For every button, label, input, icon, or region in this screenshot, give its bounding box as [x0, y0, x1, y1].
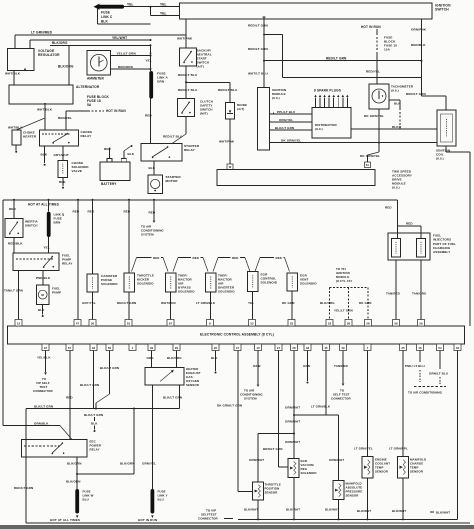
- wire RED/YEL tach feed: [376, 54, 378, 84]
- wire ORN/WHT pin 28 main: [293, 351, 295, 459]
- svg-text:BLK/ORN: BLK/ORN: [67, 462, 82, 466]
- svg-text:BLK/WHT: BLK/WHT: [392, 509, 406, 513]
- svg-text:53: 53: [127, 321, 131, 325]
- wire BLK/ORN riser: [133, 409, 135, 475]
- svg-text:(8 CYL CFI: (8 CYL CFI: [336, 279, 352, 283]
- svg-text:RED/LT BLU: RED/LT BLU: [178, 88, 198, 92]
- svg-text:BLK/WHT: BLK/WHT: [286, 508, 300, 512]
- wire BLK/ORG horizontal: [50, 44, 151, 46]
- wire RED battery positive: [109, 148, 111, 159]
- svg-text:DK GRN: DK GRN: [359, 301, 372, 305]
- fuse link Y: [151, 489, 155, 514]
- svg-text:67: 67: [169, 321, 173, 325]
- ground choke solenoid: [62, 177, 64, 186]
- wire YEL/BLK to VIP self test: [45, 351, 47, 373]
- wire BLK/LT GRN horizontal: [26, 408, 180, 410]
- wire TAN/ORG: [420, 260, 422, 320]
- svg-text:RED/LT BLU: RED/LT BLU: [163, 134, 183, 138]
- wire ORN/PNK ignition switch down: [421, 19, 423, 96]
- svg-text:LT GRN/BLK: LT GRN/BLK: [196, 301, 216, 305]
- svg-text:15A: 15A: [384, 48, 391, 52]
- svg-text:BLK/WHT: BLK/WHT: [244, 508, 258, 512]
- wire branch to MAP: [294, 414, 339, 416]
- fuse link C: [99, 5, 124, 9]
- svg-text:28: 28: [292, 346, 296, 350]
- svg-text:WHT/LT BLU: WHT/LT BLU: [248, 71, 269, 75]
- svg-text:ALTERNATOR: ALTERNATOR: [76, 85, 100, 89]
- svg-text:TAN/RED: TAN/RED: [386, 291, 401, 295]
- wire LT GRN/BLK: [210, 292, 212, 320]
- wire BLK/LT GRN pin 46: [93, 351, 95, 409]
- wire BLK pin 20 ground: [215, 351, 217, 372]
- wire BLK battery ground: [123, 151, 125, 158]
- wire RED inertia: [13, 200, 15, 219]
- svg-text:BLK: BLK: [211, 356, 218, 360]
- svg-text:45: 45: [324, 346, 328, 350]
- choke relay: [40, 130, 79, 146]
- thermactor air bypass solenoid: [166, 273, 177, 292]
- svg-text:RED/BLK: RED/BLK: [8, 241, 23, 245]
- wire YEL branch to switch: [150, 7, 152, 16]
- wire RED/LT GRN coil feed: [422, 95, 447, 97]
- svg-text:CONNECTOR: CONNECTOR: [33, 389, 53, 393]
- svg-text:GRY/YEL: GRY/YEL: [82, 301, 96, 305]
- manifold absolute pressure sensor: [333, 481, 344, 500]
- svg-text:WHT/PNK: WHT/PNK: [177, 36, 193, 40]
- svg-text:ORG: ORG: [147, 356, 155, 360]
- wire LT GRN/BLK pin 45: [325, 351, 327, 416]
- svg-text:RED/LT GRN: RED/LT GRN: [117, 301, 136, 305]
- svg-text:SOLENOID: SOLENOID: [178, 289, 195, 293]
- wire RED solenoid bus: [128, 200, 130, 273]
- svg-text:BLK: BLK: [392, 125, 399, 129]
- svg-text:RED: RED: [385, 206, 392, 210]
- svg-text:RED: RED: [149, 210, 156, 214]
- engine coolant temp sensor: [362, 457, 373, 478]
- svg-text:ORN/WHT: ORN/WHT: [329, 458, 344, 462]
- svg-text:SENSOR: SENSOR: [186, 383, 200, 387]
- svg-text:54: 54: [438, 346, 442, 350]
- svg-text:BLK/LT GRN: BLK/LT GRN: [84, 413, 103, 417]
- wire BLK choke relay ground: [44, 146, 46, 163]
- wire BLK tach ground: [389, 99, 400, 101]
- svg-text:50: 50: [108, 346, 112, 350]
- inertia switch: [5, 219, 23, 238]
- svg-text:SENSOR: SENSOR: [346, 493, 360, 497]
- wire TAN/RED: [395, 260, 397, 320]
- svg-text:10: 10: [256, 346, 260, 350]
- svg-text:PNK/BLK: PNK/BLK: [36, 276, 51, 280]
- svg-text:58: 58: [347, 321, 351, 325]
- wire RED/YEL to choke relay: [65, 111, 67, 130]
- svg-text:RED/LT GRN: RED/LT GRN: [248, 47, 269, 51]
- svg-text:YEL/LT GRN: YEL/LT GRN: [117, 51, 137, 55]
- svg-text:SOLENOID: SOLENOID: [300, 281, 317, 285]
- svg-text:SWITCH: SWITCH: [435, 8, 449, 12]
- svg-text:ORN/WHT: ORN/WHT: [285, 419, 300, 423]
- svg-text:WHT/BLK: WHT/BLK: [8, 126, 23, 130]
- svg-text:ORN: ORN: [157, 79, 165, 83]
- svg-text:RELAY: RELAY: [62, 261, 73, 265]
- svg-text:BLK/LT GRN: BLK/LT GRN: [275, 126, 294, 130]
- svg-text:YEL/BLK: YEL/BLK: [37, 355, 51, 359]
- svg-text:BLK: BLK: [149, 166, 156, 170]
- svg-text:BLK/LT GRN: BLK/LT GRN: [163, 395, 182, 399]
- fuse link A: [149, 71, 153, 99]
- throttle position sensor: [253, 482, 264, 500]
- svg-text:RED: RED: [276, 256, 282, 260]
- bottom gray strip: [0, 525, 474, 529]
- wire RED/LT BLU backup out: [185, 66, 187, 82]
- svg-text:MOTOR: MOTOR: [166, 179, 179, 183]
- wire O/LB to AC: [257, 351, 259, 385]
- wire LT GRN/PPL pin 25: [402, 351, 404, 457]
- svg-text:BLK/LT GRN: BLK/LT GRN: [100, 366, 119, 370]
- svg-text:LT GRN/YEL: LT GRN/YEL: [354, 446, 373, 450]
- svg-text:RED: RED: [104, 147, 112, 151]
- svg-text:BLK/LT GRN: BLK/LT GRN: [80, 383, 99, 387]
- AC bracket bottom right: [414, 386, 446, 388]
- svg-text:GRY/WHT: GRY/WHT: [54, 153, 69, 157]
- wire WHT/BLK alternator down: [44, 104, 46, 130]
- alternator: [9, 85, 73, 104]
- svg-text:REGULATOR: REGULATOR: [38, 53, 60, 57]
- svg-text:(9.0.): (9.0.): [436, 157, 444, 161]
- svg-text:SOLENOID: SOLENOID: [101, 282, 118, 286]
- svg-text:RED/YEL: RED/YEL: [366, 69, 380, 73]
- wire BLK distributor to coil: [351, 128, 437, 130]
- svg-text:WHT/BLK: WHT/BLK: [5, 72, 21, 76]
- svg-text:RED/BLK: RED/BLK: [411, 43, 426, 47]
- svg-text:12: 12: [17, 321, 21, 325]
- starter motor: [148, 175, 163, 194]
- svg-text:LINK C: LINK C: [101, 15, 113, 19]
- distributor: [312, 108, 351, 138]
- wire DK GRN: [291, 291, 293, 320]
- svg-text:YEL: YEL: [44, 245, 50, 249]
- wire TAN/RED pin 49 to self test: [342, 351, 344, 384]
- wire RED to EEC relay: [69, 351, 71, 440]
- svg-text:SWITCH: SWITCH: [25, 223, 38, 227]
- wire YEL top feed: [124, 6, 180, 8]
- svg-text:LT GRN/BLK: LT GRN/BLK: [311, 404, 331, 408]
- svg-text:GRN: GRN: [303, 364, 310, 368]
- svg-text:DK GRN: DK GRN: [282, 301, 295, 305]
- svg-text:BLK/ORG: BLK/ORG: [58, 64, 74, 68]
- wire PNK/LT BLU pin 16: [419, 351, 421, 363]
- svg-text:36: 36: [91, 321, 95, 325]
- svg-text:WHT/PNK: WHT/PNK: [219, 139, 235, 143]
- EEC power relay: [22, 440, 88, 458]
- wire BLK to starter motor: [153, 161, 155, 175]
- wire GRN pin 48 ground: [307, 351, 309, 382]
- wire GRY/WHT: [62, 146, 64, 160]
- two speed accessory drive module: [217, 170, 375, 186]
- svg-text:ORN/WHT: ORN/WHT: [249, 458, 264, 462]
- wire DK GRN/YEL to 5A: [378, 143, 380, 152]
- svg-text:TAN/RED: TAN/RED: [334, 364, 349, 368]
- backup/neutral start switch: [180, 48, 197, 66]
- wire fuse link C loop: [97, 8, 99, 24]
- svg-text:BLK/WHT: BLK/WHT: [325, 508, 339, 512]
- wire PPL/LT BLU: [270, 113, 313, 115]
- svg-text:BLK/ORN: BLK/ORN: [120, 462, 135, 466]
- svg-text:29: 29: [175, 346, 179, 350]
- svg-text:BRN: BRN: [54, 220, 61, 224]
- svg-text:LT GRN/RED: LT GRN/RED: [31, 31, 53, 35]
- voltage regulator: [7, 49, 33, 71]
- wire BLK/LT GRN: [270, 129, 313, 131]
- wire branch to TPS: [258, 433, 294, 435]
- svg-text:BLU: BLU: [158, 497, 164, 501]
- wire module feed: [263, 17, 265, 87]
- svg-text:PPL/LT BLU: PPL/LT BLU: [277, 110, 295, 114]
- svg-text:58: 58: [394, 321, 398, 325]
- manifold charge temp sensor: [398, 457, 409, 478]
- wire ORN/LT BLU pin 54: [439, 351, 441, 370]
- svg-text:BLK: BLK: [91, 421, 98, 425]
- wire WHT/PNK diode to module: [229, 119, 231, 164]
- wire LT GRN/RED: [14, 35, 16, 49]
- choke heater: [12, 130, 21, 145]
- svg-text:CONNECTOR: CONNECTOR: [198, 517, 218, 521]
- svg-text:HOT IN RUN: HOT IN RUN: [361, 25, 381, 29]
- svg-text:M: M: [41, 293, 44, 297]
- wire RED/LT BLU to clutch: [185, 82, 187, 98]
- svg-text:SYSTEM: SYSTEM: [244, 397, 257, 401]
- sensor grounds to common line: [257, 500, 259, 519]
- wire RED canister feed: [92, 200, 94, 274]
- svg-text:(A/T): (A/T): [237, 107, 244, 111]
- EGR vent solenoid: [287, 273, 298, 291]
- svg-text:BLK: BLK: [38, 308, 45, 312]
- svg-text:25: 25: [401, 346, 405, 350]
- svg-text:YEL: YEL: [160, 11, 167, 15]
- ground fuel pump: [42, 305, 44, 315]
- wire RED/LT GRN left: [25, 409, 27, 524]
- wire branch to diode: [186, 81, 230, 83]
- svg-text:YEL: YEL: [248, 301, 254, 305]
- fuel pump relay: [13, 253, 59, 271]
- svg-text:5A: 5A: [87, 103, 92, 107]
- ignition switch: [180, 3, 432, 19]
- svg-text:52: 52: [250, 321, 254, 325]
- svg-text:RED: RED: [193, 256, 199, 260]
- svg-text:VALVE: VALVE: [72, 169, 82, 173]
- svg-text:BLK/ORG: BLK/ORG: [167, 356, 182, 360]
- svg-text:RED/YEL: RED/YEL: [58, 116, 72, 120]
- svg-text:RED/LT GRN: RED/LT GRN: [248, 24, 269, 28]
- svg-text:ORN/WHT: ORN/WHT: [285, 440, 300, 444]
- wire WHT/RED: [170, 292, 172, 320]
- svg-text:BLK/WHT: BLK/WHT: [436, 510, 450, 514]
- svg-text:HOT IN RUN: HOT IN RUN: [106, 109, 126, 113]
- svg-text:ORN/BLK: ORN/BLK: [34, 421, 49, 425]
- svg-text:RED: RED: [73, 209, 80, 213]
- svg-text:ASSEMBLY: ASSEMBLY: [433, 250, 450, 254]
- wire TO AIR CONDITIONING arrow: [153, 200, 155, 220]
- svg-text:RED/LT GRN: RED/LT GRN: [406, 92, 427, 96]
- svg-text:47: 47: [76, 321, 80, 325]
- wire RED/BLK: [13, 238, 15, 254]
- svg-text:58: 58: [366, 321, 370, 325]
- svg-text:BLK: BLK: [41, 153, 48, 157]
- EGR control solenoid: [248, 272, 259, 292]
- fuel injectors assembly: [388, 233, 430, 260]
- svg-text:TAN/LT GRN: TAN/LT GRN: [4, 288, 23, 292]
- svg-text:YEL/LT GRN: YEL/LT GRN: [334, 309, 353, 313]
- svg-text:DK GRN/YEL: DK GRN/YEL: [360, 154, 380, 158]
- throttle kicker solenoid: [128, 252, 130, 273]
- svg-text:RED: RED: [88, 209, 95, 213]
- svg-text:YEL/WHT: YEL/WHT: [112, 36, 127, 40]
- wire BLK/ORG sensor: [176, 351, 178, 368]
- svg-text:ORG/YEL: ORG/YEL: [279, 118, 293, 122]
- svg-text:BRN/LT GRN: BRN/LT GRN: [263, 447, 282, 451]
- main feed line HOT AT ALL TIMES: [3, 199, 398, 201]
- svg-text:8 SPARK PLUGS: 8 SPARK PLUGS: [314, 89, 341, 93]
- wire YEL EGR control: [252, 292, 254, 320]
- svg-text:RED: RED: [406, 222, 413, 226]
- connector 5A: [365, 162, 371, 168]
- svg-text:TAN/ORG: TAN/ORG: [412, 291, 427, 295]
- svg-text:BLK/ORN: BLK/ORN: [66, 479, 81, 483]
- svg-text:(9.0.): (9.0.): [392, 185, 400, 189]
- wire DK GRN/YEL tach down: [378, 109, 380, 143]
- svg-text:RELAY: RELAY: [81, 134, 93, 138]
- wire BLK/ORG vertical to alternator: [68, 45, 70, 85]
- fuse link W: [75, 489, 79, 514]
- wire DK GRN/LT GRN pin 47: [237, 351, 239, 492]
- svg-text:RED: RED: [9, 207, 17, 211]
- wire RED/ORG ammeter: [111, 68, 151, 70]
- wire LT GRN/YEL pin 7: [367, 351, 369, 457]
- thermactor air diverter solenoid: [206, 273, 217, 292]
- electronic control assembly: [8, 326, 465, 344]
- svg-text:20: 20: [214, 346, 218, 350]
- svg-text:YEL: YEL: [160, 3, 167, 7]
- wire branch loop RED/LT GRN: [264, 34, 283, 36]
- svg-text:O/LB: O/LB: [253, 364, 261, 368]
- svg-text:27: 27: [277, 346, 281, 350]
- diode: [229, 82, 231, 102]
- svg-text:SOLENOID: SOLENOID: [261, 280, 278, 284]
- svg-text:FUSE: FUSE: [101, 11, 110, 15]
- wire BRN/LT GRN pin 27: [278, 351, 280, 468]
- svg-text:RED/LT GRN: RED/LT GRN: [326, 57, 347, 61]
- svg-text:BLU: BLU: [83, 497, 89, 501]
- left frame wire: [2, 200, 4, 426]
- wire ORG: [151, 351, 153, 368]
- svg-text:47: 47: [236, 346, 240, 350]
- svg-text:RED/ORG: RED/ORG: [118, 65, 134, 69]
- wire RED injector feed: [397, 200, 399, 239]
- svg-text:RED: RED: [66, 396, 73, 400]
- svg-text:WHT/BLK: WHT/BLK: [37, 108, 53, 112]
- wire BLK/LT GRN pin 50: [109, 351, 111, 395]
- svg-text:(9.0.): (9.0.): [391, 88, 399, 92]
- svg-text:RED: RED: [124, 209, 131, 213]
- wire switch feed: [185, 19, 187, 48]
- battery: [100, 162, 130, 181]
- svg-text:AMMETER: AMMETER: [87, 77, 105, 81]
- ECA top connectors: [15, 320, 22, 327]
- wire RED fuse link A below: [150, 99, 152, 144]
- ignition coil: [437, 110, 456, 146]
- ignition module: [258, 87, 270, 150]
- svg-text:SOLENOID: SOLENOID: [218, 289, 235, 293]
- svg-text:ORN/WHT: ORN/WHT: [285, 405, 300, 409]
- svg-text:BLK/LT GRN: BLK/LT GRN: [34, 404, 53, 408]
- tachometer: [369, 84, 389, 109]
- svg-text:BLK/WHT: BLK/WHT: [357, 509, 371, 513]
- svg-text:SENSOR: SENSOR: [375, 469, 389, 473]
- wire YEL/WHT: [29, 40, 31, 49]
- svg-text:DK GRN/YEL: DK GRN/YEL: [281, 138, 301, 142]
- svg-text:CONNECTOR: CONNECTOR: [331, 397, 351, 401]
- svg-text:RED/LT GRN: RED/LT GRN: [14, 486, 33, 490]
- svg-text:59: 59: [419, 321, 423, 325]
- canister purge solenoid: [87, 274, 98, 292]
- svg-text:46: 46: [456, 346, 460, 350]
- wire GRN/YEL to fuse link Y: [151, 385, 153, 489]
- svg-text:RED: RED: [232, 256, 238, 260]
- fuel pump: [37, 285, 50, 305]
- wire hot in run fuse: [66, 110, 88, 112]
- svg-text:HOT AT ALL TIMES: HOT AT ALL TIMES: [28, 202, 59, 206]
- svg-text:W: W: [229, 165, 232, 169]
- wire WHT/BLK regulator to alternator: [13, 71, 15, 85]
- wire RED injector jumper: [398, 225, 421, 227]
- svg-text:PNK/ LT BLU: PNK/ LT BLU: [405, 364, 425, 368]
- svg-text:RELAY: RELAY: [184, 148, 196, 152]
- starter relay: [141, 143, 182, 161]
- svg-text:(M/T): (M/T): [200, 111, 208, 115]
- wire RED to pin 47: [77, 200, 79, 320]
- wire ORG/YEL: [270, 121, 313, 123]
- bottom frame line: [26, 522, 470, 524]
- EGR vacuum reg solenoid: [288, 459, 299, 478]
- svg-text:5A: 5A: [366, 164, 370, 167]
- svg-text:ORN/LT BLU: ORN/LT BLU: [429, 372, 448, 376]
- svg-text:WHT/RED: WHT/RED: [161, 301, 177, 305]
- svg-text:HEATER: HEATER: [23, 134, 37, 138]
- wire TAN/LT GRN: [18, 271, 20, 320]
- svg-text:HOT AT ALL TIMES: HOT AT ALL TIMES: [50, 518, 80, 522]
- svg-text:BLK: BLK: [59, 180, 66, 184]
- svg-text:RED/LT BLU: RED/LT BLU: [178, 73, 198, 77]
- svg-text:TO AIR CONDITIONING: TO AIR CONDITIONING: [408, 391, 443, 395]
- bottom BLK/WHT common line: [238, 518, 458, 520]
- svg-text:BLK: BLK: [128, 152, 135, 156]
- svg-text:BLK: BLK: [101, 19, 108, 23]
- wire RED/LT GRN long: [264, 60, 422, 62]
- svg-text:BATTERY: BATTERY: [101, 182, 117, 186]
- svg-text:(9.0.): (9.0.): [315, 127, 323, 131]
- wire RED/LT BLU clutch out: [185, 117, 187, 135]
- wire BLK/WHT pin 46 right: [457, 351, 459, 520]
- svg-text:LT GRN/PPL: LT GRN/PPL: [389, 446, 408, 450]
- ground choke heater: [15, 145, 17, 150]
- svg-text:YEL: YEL: [146, 59, 152, 63]
- heated exhaust gas oxygen sensor: [145, 367, 184, 385]
- svg-text:PUMP: PUMP: [52, 290, 61, 294]
- svg-text:57: 57: [68, 346, 72, 350]
- ECA bottom connectors: [42, 344, 49, 351]
- svg-text:GRN/YEL: GRN/YEL: [142, 462, 156, 466]
- svg-text:18: 18: [328, 321, 332, 325]
- svg-text:ORN/PNK: ORN/PNK: [411, 28, 427, 32]
